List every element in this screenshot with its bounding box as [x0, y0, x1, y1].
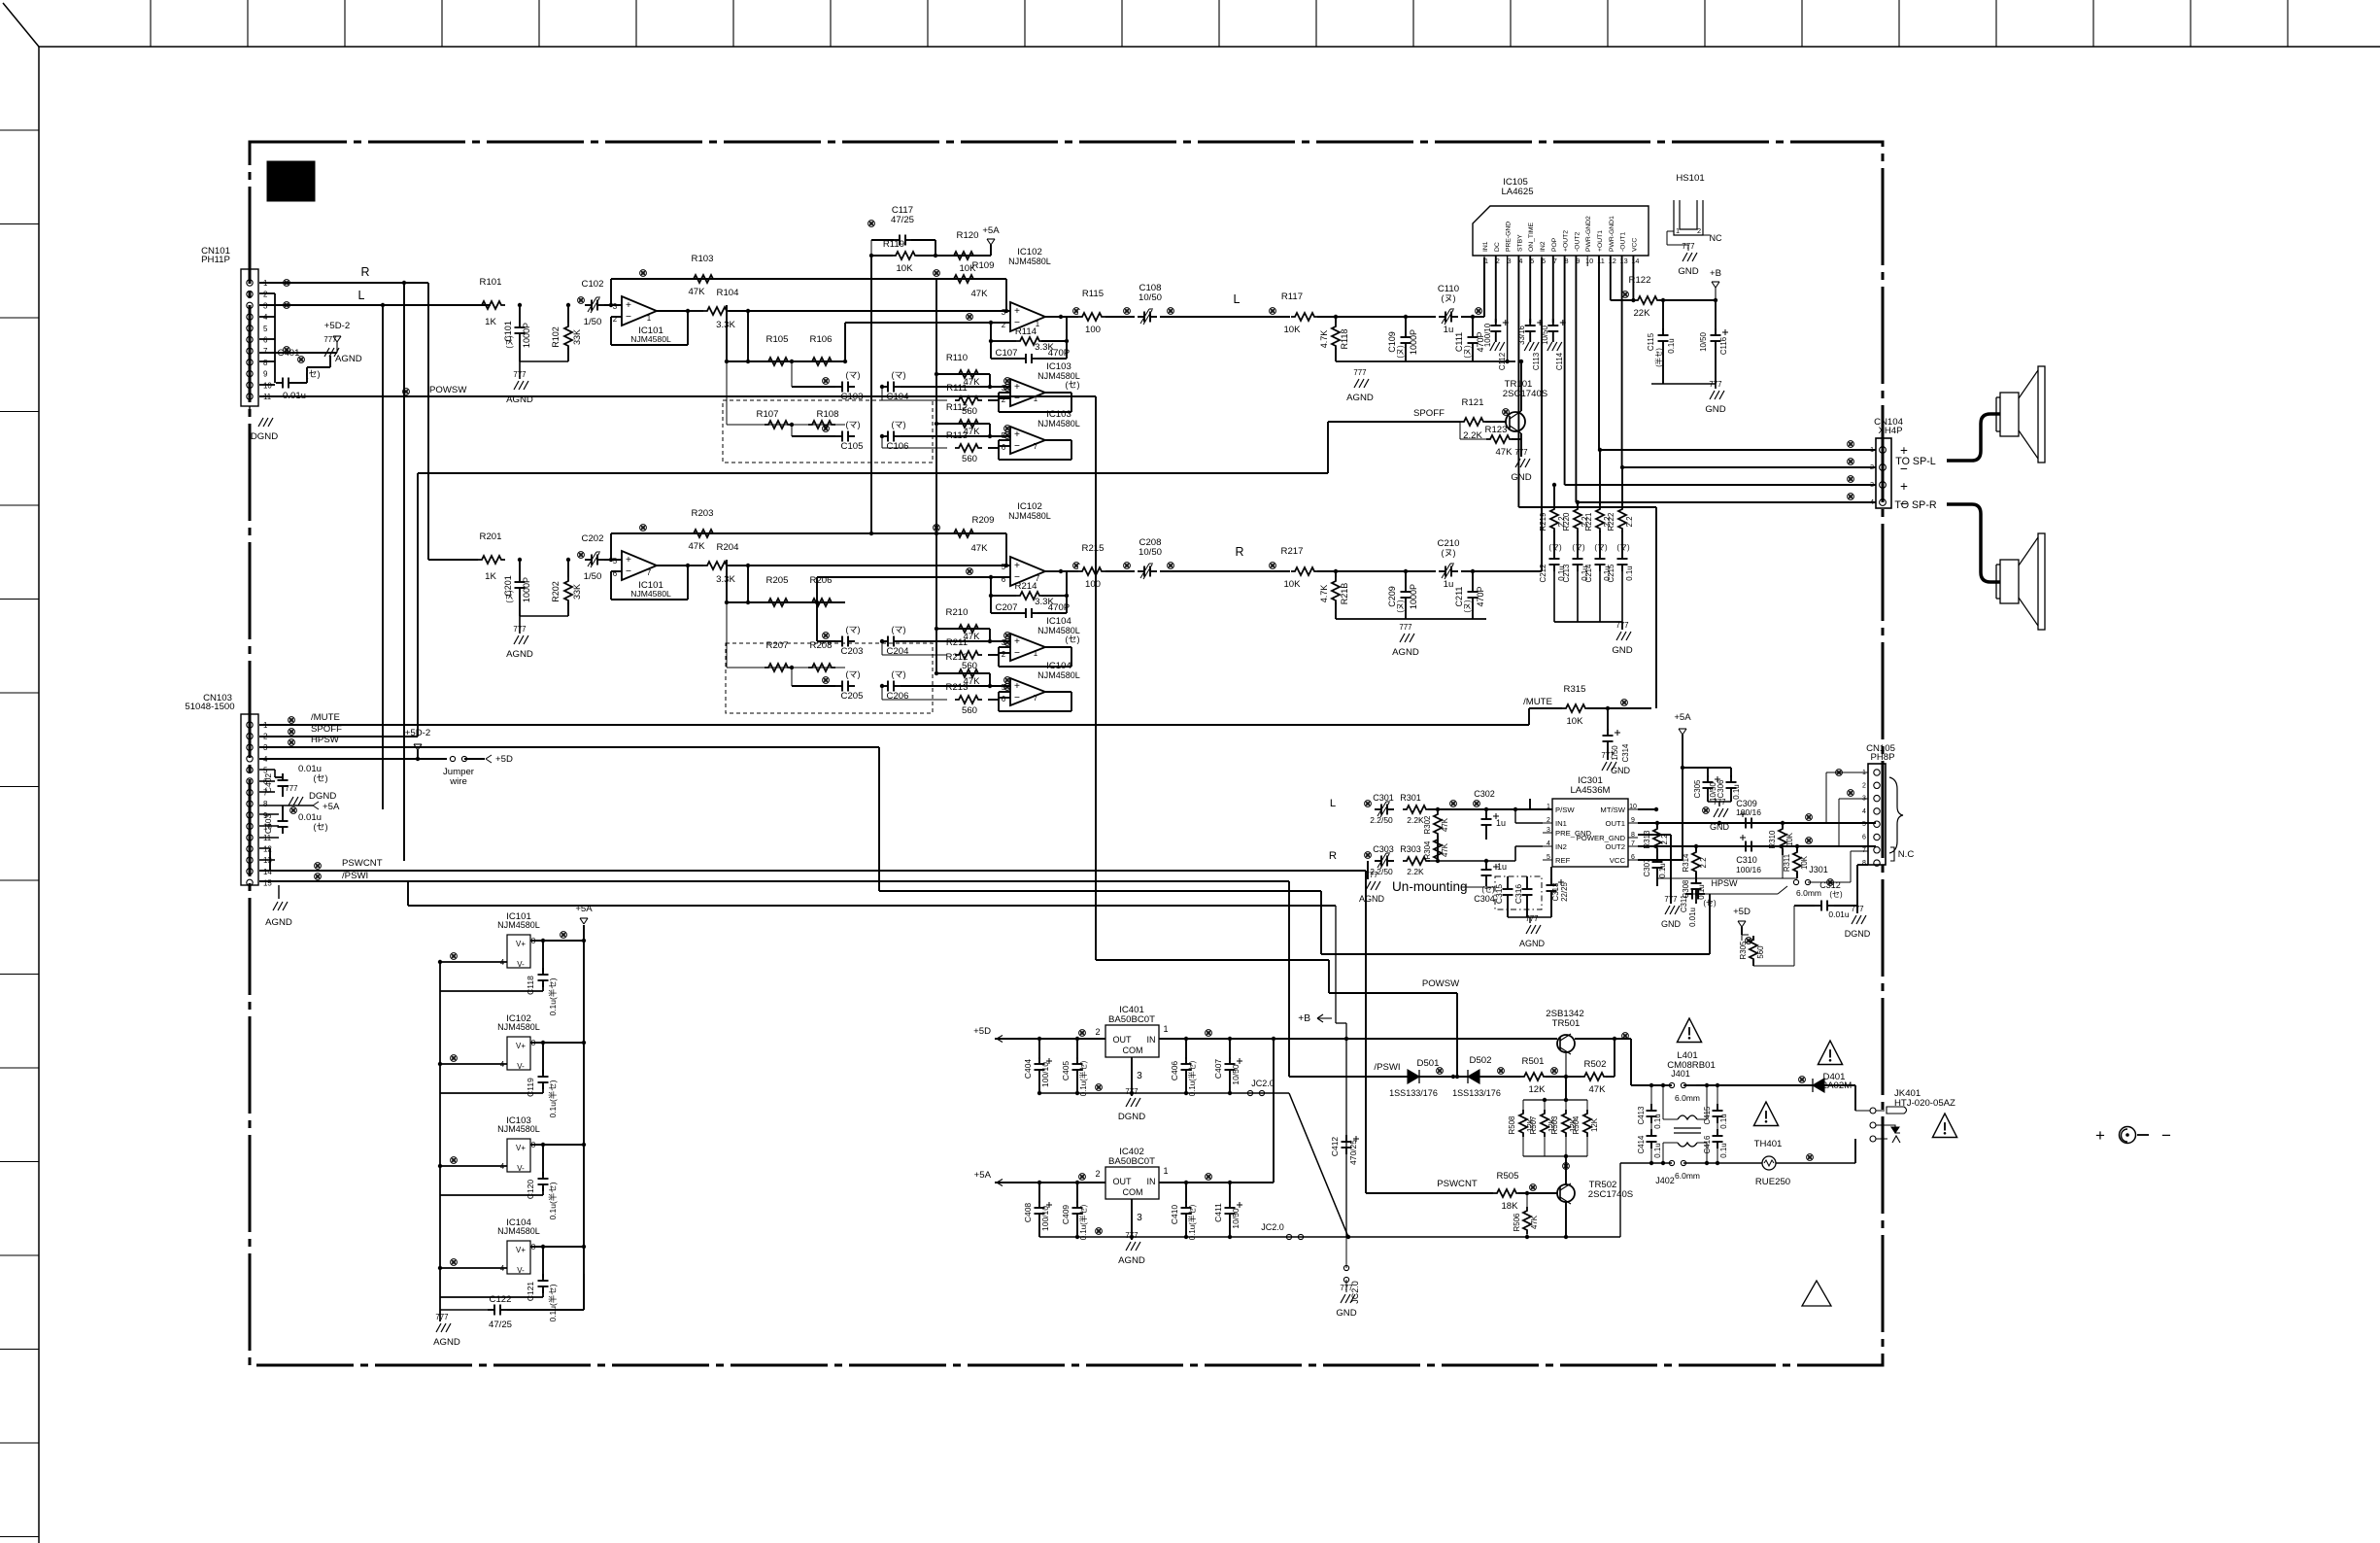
loop IC103a	[999, 393, 1071, 412]
svg-text:2: 2	[1870, 463, 1874, 471]
capacitor C210	[1436, 538, 1461, 590]
svg-text:AGND: AGND	[1118, 1255, 1145, 1266]
svg-text:GND: GND	[1705, 404, 1725, 415]
node L tap to IC301	[381, 303, 385, 809]
wire PSWCNT net	[259, 858, 1366, 1193]
wire HPSW net	[259, 735, 1710, 954]
svg-text:COM: COM	[1122, 1046, 1142, 1055]
svg-text:R305: R305	[1739, 941, 1748, 960]
ground TR101	[1511, 447, 1531, 483]
svg-text:/MUTE: /MUTE	[311, 712, 340, 723]
svg-text:XH4P: XH4P	[1878, 426, 1902, 436]
connector CN103	[185, 693, 258, 885]
svg-text:(ヌ): (ヌ)	[1396, 345, 1405, 359]
capacitor C302	[1474, 789, 1506, 840]
svg-text:D501: D501	[1417, 1058, 1440, 1069]
wire gnd rail	[520, 361, 568, 379]
svg-text:NJM4580L: NJM4580L	[497, 1124, 540, 1134]
via	[284, 347, 290, 354]
wire V- bus	[439, 962, 441, 1310]
svg-text:(マ): (マ)	[845, 420, 860, 429]
svg-text:C413: C413	[1637, 1106, 1646, 1125]
wire SPOFF	[1413, 408, 1460, 422]
svg-text:/PSWI: /PSWI	[1374, 1062, 1400, 1073]
capacitor C207	[991, 602, 1080, 644]
svg-text:R310: R310	[1768, 830, 1777, 849]
svg-text:+OUT2: +OUT2	[1563, 230, 1570, 252]
svg-text:C407: C407	[1213, 1059, 1223, 1080]
svg-text:ON_TIME: ON_TIME	[1528, 222, 1535, 252]
schematic dash-dot border	[250, 142, 1883, 1365]
ground AGND	[307, 335, 362, 383]
label R in	[1329, 850, 1337, 862]
wire to IC105 IN1	[1473, 257, 1484, 317]
wire IC402 com	[1118, 1199, 1145, 1266]
svg-text:6: 6	[1862, 835, 1866, 841]
svg-text:L: L	[358, 289, 365, 302]
svg-text:C406: C406	[1170, 1061, 1179, 1081]
resistor R208	[808, 640, 835, 671]
resistor R117	[1270, 291, 1318, 335]
svg-text:2: 2	[1095, 1027, 1100, 1037]
brace CN105	[1889, 777, 1903, 853]
svg-text:LA4625: LA4625	[1501, 187, 1533, 197]
svg-text:0.1u(半セ): 0.1u(半セ)	[1078, 1060, 1088, 1096]
svg-text:+5D: +5D	[973, 1026, 991, 1037]
svg-text:6: 6	[1002, 695, 1006, 703]
svg-text:(セ): (セ)	[313, 773, 327, 783]
capacitor C304	[1474, 861, 1507, 904]
svg-text:3: 3	[1870, 480, 1874, 489]
svg-text:V+: V+	[516, 1246, 526, 1254]
resistor R506	[1513, 1193, 1539, 1239]
resistor R502	[1566, 1039, 1615, 1095]
capacitor C405	[1061, 1037, 1088, 1096]
svg-text:2: 2	[263, 291, 267, 299]
label +B arrow	[1298, 1013, 1332, 1024]
svg-text:R215: R215	[1082, 543, 1105, 554]
svg-text:R214: R214	[1015, 581, 1038, 592]
capacitor C308	[1657, 876, 1706, 904]
via	[823, 677, 830, 684]
svg-text:7: 7	[1034, 694, 1037, 703]
svg-text:C214: C214	[1584, 564, 1593, 583]
svg-text:C114: C114	[1555, 352, 1564, 370]
wire L to IN1	[1513, 807, 1543, 823]
resistor R213	[882, 682, 1010, 716]
wire +5A rail	[561, 904, 594, 1310]
capacitor C408	[1023, 1181, 1052, 1237]
svg-text:AGND: AGND	[265, 917, 292, 928]
svg-text:R213: R213	[946, 682, 969, 693]
wire R down to R-channel row	[427, 283, 429, 560]
svg-text:+5A: +5A	[982, 225, 1000, 236]
svg-text:PSWCNT: PSWCNT	[342, 858, 383, 869]
svg-text:C405: C405	[1061, 1061, 1071, 1081]
wire TR501 emitter row	[1346, 1033, 1631, 1042]
svg-text:2.2K: 2.2K	[1407, 815, 1424, 825]
svg-text:14: 14	[263, 868, 272, 876]
svg-text:NJM4580L: NJM4580L	[497, 1226, 540, 1236]
resistor R503	[1550, 1100, 1578, 1156]
svg-text:POWSW: POWSW	[1422, 978, 1460, 989]
svg-text:(マ): (マ)	[891, 420, 905, 429]
wire into IC104b	[901, 685, 1010, 687]
svg-text:1/50: 1/50	[584, 571, 602, 582]
svg-text:C305: C305	[1693, 779, 1702, 799]
svg-text:470P: 470P	[1476, 586, 1485, 606]
svg-text:R102: R102	[551, 326, 561, 348]
jumper JC2.0 v	[1343, 1237, 1360, 1304]
resistor R211	[882, 637, 1010, 671]
svg-text:REF: REF	[1555, 856, 1571, 865]
svg-text:DGND: DGND	[251, 431, 278, 442]
svg-text:+: +	[1900, 479, 1908, 494]
svg-text:777: 777	[1514, 448, 1527, 457]
wire bank drops	[1554, 450, 1622, 505]
svg-text:10K: 10K	[896, 263, 913, 274]
svg-text:0.01u: 0.01u	[1688, 908, 1697, 927]
svg-text:777: 777	[1525, 914, 1538, 923]
capacitor C106	[880, 420, 909, 452]
svg-text:C416: C416	[1703, 1135, 1712, 1154]
svg-text:777: 777	[435, 1313, 448, 1321]
svg-text:C212: C212	[1539, 565, 1547, 583]
svg-text:10K: 10K	[1283, 325, 1301, 335]
svg-text:3: 3	[613, 302, 618, 311]
svg-text:C103: C103	[841, 392, 864, 402]
capacitor C202	[578, 533, 604, 582]
svg-text:777: 777	[1365, 871, 1377, 879]
svg-text:LA4536M: LA4536M	[1570, 785, 1610, 796]
svg-text:(セ): (セ)	[1703, 899, 1717, 908]
speaker L	[1996, 366, 2045, 463]
svg-text:1: 1	[1676, 226, 1680, 235]
svg-text:R204: R204	[717, 542, 740, 553]
resistor R217	[1270, 546, 1318, 590]
svg-text:100/16: 100/16	[1736, 807, 1761, 817]
svg-text:(マ): (マ)	[1594, 543, 1608, 552]
svg-text:1/50: 1/50	[584, 317, 602, 327]
loop IC104a	[999, 647, 1071, 667]
svg-text:R202: R202	[551, 581, 561, 602]
svg-text:R114: R114	[1015, 326, 1037, 337]
IC105 pin14 wire	[1611, 256, 1636, 302]
via	[284, 302, 290, 309]
resistor R220	[1562, 505, 1589, 552]
wire CN105 pin3	[1839, 790, 1868, 846]
svg-text:R315: R315	[1564, 684, 1586, 695]
capacitor C309	[1736, 799, 1761, 829]
resistor R304	[1423, 836, 1449, 863]
via	[284, 280, 290, 287]
resistor R218	[1319, 569, 1349, 619]
svg-text:TR501: TR501	[1552, 1018, 1581, 1029]
capacitor C314	[1603, 708, 1631, 762]
svg-text:GND: GND	[1611, 766, 1631, 775]
svg-text:R117: R117	[1281, 291, 1303, 302]
ground DGND 305	[1845, 905, 1871, 939]
svg-text:777: 777	[1713, 798, 1725, 806]
svg-text:R311: R311	[1783, 853, 1791, 872]
wire C103 row	[790, 360, 835, 387]
svg-text:R104: R104	[717, 288, 740, 298]
svg-text:C408: C408	[1023, 1203, 1033, 1223]
warning triangle TH401	[1753, 1102, 1782, 1149]
jumper JC2.0 a	[1247, 1079, 1274, 1096]
svg-text:10/50: 10/50	[1699, 332, 1708, 352]
resistor R121	[1460, 397, 1506, 441]
svg-text:C302: C302	[1474, 789, 1495, 799]
resistor R108	[808, 409, 838, 429]
capacitor C111	[1454, 315, 1485, 361]
svg-text:0.1u(半セ): 0.1u(半セ)	[548, 977, 558, 1015]
capacitor C109	[1387, 315, 1418, 361]
IC105 pin4 drop	[1518, 256, 1656, 708]
resistor R314	[1682, 846, 1708, 878]
svg-text:R205: R205	[766, 575, 789, 586]
svg-text:1: 1	[1034, 649, 1038, 658]
IC105 pin2 cap C112	[1483, 256, 1509, 370]
svg-text:−: −	[1014, 394, 1020, 404]
svg-text:AGND: AGND	[1346, 393, 1374, 403]
connector CN105	[1866, 743, 1895, 865]
capacitor C122	[440, 1274, 584, 1330]
svg-text:2: 2	[1095, 1169, 1100, 1179]
svg-text:NJM4580L: NJM4580L	[1037, 626, 1080, 635]
resistor R106	[808, 334, 835, 365]
ground DGND below CN101	[250, 406, 278, 442]
inductor L401	[1661, 1083, 1709, 1165]
wire +OUT1 to CN104-1	[1598, 256, 1876, 452]
label L in	[1330, 798, 1336, 809]
svg-text:NC: NC	[1709, 233, 1722, 243]
svg-text:R217: R217	[1281, 546, 1304, 557]
svg-text:C118: C118	[526, 976, 535, 995]
svg-text:TO SP-L: TO SP-L	[1895, 456, 1936, 467]
svg-text:47K: 47K	[970, 289, 988, 299]
svg-text:C202: C202	[582, 533, 604, 544]
svg-text:C203: C203	[841, 646, 864, 657]
svg-text:COM: COM	[1122, 1187, 1142, 1197]
power flag +B	[1710, 268, 1721, 300]
svg-text:+5A: +5A	[575, 904, 593, 914]
svg-text:J402: J402	[1655, 1176, 1675, 1185]
svg-text:C306: C306	[1717, 779, 1725, 799]
via	[1365, 801, 1372, 807]
resistor R219	[1539, 505, 1566, 552]
capacitor C118	[440, 939, 558, 1016]
diagonal wire	[1289, 1093, 1348, 1237]
svg-text:C403: C403	[263, 814, 273, 835]
svg-text:100/10: 100/10	[1040, 1062, 1050, 1087]
capacitor C402	[259, 764, 328, 797]
resistor R113	[882, 430, 1010, 464]
power flag +5D	[1733, 907, 1751, 935]
op-amp IC104b	[1002, 661, 1080, 705]
svg-text:AGND: AGND	[335, 354, 362, 364]
svg-text:0.01u: 0.01u	[1828, 909, 1849, 919]
svg-text:2.2/50: 2.2/50	[1370, 815, 1393, 825]
svg-text:AGND: AGND	[1392, 647, 1419, 658]
svg-text:1u: 1u	[1444, 325, 1454, 335]
svg-text:+: +	[1014, 561, 1020, 571]
svg-text:4.7K: 4.7K	[1319, 585, 1329, 603]
svg-text:C415: C415	[1703, 1106, 1712, 1125]
svg-text:HS101: HS101	[1676, 173, 1704, 184]
ground rail L mid	[1336, 361, 1515, 403]
svg-text:(マ): (マ)	[845, 669, 860, 679]
svg-text:(マ): (マ)	[1616, 543, 1630, 552]
capacitor C209	[1387, 569, 1418, 619]
polarity symbol	[2095, 1126, 2171, 1145]
ground AGND below CN103	[265, 885, 292, 928]
svg-text:R211: R211	[946, 637, 968, 648]
ground rail R mid	[1336, 619, 1486, 658]
svg-text:R113: R113	[946, 430, 968, 441]
svg-text:NJM4580L: NJM4580L	[1008, 511, 1051, 521]
svg-text:777: 777	[1353, 368, 1366, 377]
svg-text:+B: +B	[1710, 268, 1721, 279]
svg-text:0.1u(半セ): 0.1u(半セ)	[1187, 1204, 1197, 1240]
jack JK401	[1855, 1088, 1955, 1143]
svg-text:15: 15	[263, 878, 272, 887]
resistor R505	[1493, 1171, 1557, 1212]
svg-text:V-: V-	[517, 1266, 525, 1275]
heatsink HS101	[1667, 173, 1722, 251]
op-amp IC101a	[604, 296, 690, 345]
wire R105 R106 row	[725, 305, 845, 363]
wire POWSW bottom	[1096, 396, 1460, 1079]
svg-text:(マ): (マ)	[845, 370, 860, 380]
svg-text:3: 3	[1547, 827, 1550, 834]
svg-text:C314: C314	[1621, 743, 1630, 763]
op-amp power IC103	[438, 1115, 586, 1173]
resistor R105	[765, 334, 792, 365]
wire to L401	[1631, 1039, 1666, 1085]
svg-text:0.1u(半セ): 0.1u(半セ)	[548, 1080, 558, 1117]
svg-text:(マ): (マ)	[1572, 543, 1585, 552]
svg-text:4: 4	[1862, 808, 1866, 815]
svg-text:+: +	[1014, 429, 1020, 440]
svg-text:47K: 47K	[1441, 817, 1449, 832]
resistor R202	[551, 558, 582, 616]
svg-text:C121: C121	[526, 1282, 535, 1302]
svg-text:0.1u(半セ): 0.1u(半セ)	[548, 1284, 558, 1321]
svg-text:C310: C310	[1736, 855, 1757, 865]
capacitor C108	[1135, 283, 1162, 325]
IC105 pin12 wire	[1611, 256, 1620, 300]
svg-text:MT/SW: MT/SW	[1600, 806, 1625, 814]
diode D401	[1799, 1077, 1855, 1092]
svg-text:10K: 10K	[1800, 855, 1809, 870]
svg-text:C113: C113	[1532, 352, 1541, 370]
svg-text:100/10: 100/10	[1483, 323, 1492, 347]
svg-text:C409: C409	[1061, 1205, 1071, 1225]
svg-text:10: 10	[1629, 804, 1637, 810]
wire C105 row	[792, 425, 835, 436]
power flag +5A	[982, 225, 1000, 256]
svg-text:C205: C205	[841, 691, 864, 702]
svg-text:C120: C120	[526, 1180, 535, 1200]
svg-text:C116: C116	[1719, 336, 1728, 355]
IC301 LA4536M box	[1552, 775, 1628, 867]
svg-text:−: −	[1014, 648, 1020, 659]
svg-text:8: 8	[1862, 860, 1866, 867]
svg-text:OUT2: OUT2	[1606, 842, 1625, 851]
svg-text:GND: GND	[1612, 645, 1632, 656]
svg-text:NJM4580L: NJM4580L	[497, 920, 540, 930]
svg-text:33K: 33K	[572, 584, 582, 600]
svg-text:R505: R505	[1497, 1171, 1519, 1182]
resistor R111	[882, 383, 1010, 417]
capacitor C214	[1584, 543, 1612, 622]
svg-text:/MUTE: /MUTE	[1523, 697, 1552, 707]
capacitor C203	[835, 625, 863, 657]
svg-text:47K: 47K	[1588, 1084, 1606, 1095]
svg-text:BA50BC0T: BA50BC0T	[1108, 1156, 1155, 1167]
svg-text:C312: C312	[1819, 880, 1841, 890]
ground HS101	[1678, 242, 1698, 277]
svg-text:wire: wire	[449, 776, 467, 787]
svg-text:1000P: 1000P	[522, 323, 531, 348]
svg-text:+OUT1: +OUT1	[1597, 230, 1604, 252]
svg-text:+5D-2: +5D-2	[324, 321, 350, 331]
wire	[1428, 859, 1515, 863]
ground AGND2	[1508, 914, 1551, 948]
capacitor C204	[880, 625, 909, 657]
diode D502	[1419, 1055, 1504, 1098]
svg-text:6: 6	[1631, 854, 1635, 861]
svg-text:C311: C311	[1680, 894, 1688, 912]
wire mid vertical bus 964	[935, 279, 937, 533]
svg-text:6.0mm: 6.0mm	[1796, 888, 1821, 898]
capacitor C307	[1643, 855, 1667, 886]
via	[823, 378, 830, 385]
svg-text:HPSW: HPSW	[311, 735, 340, 745]
svg-text:C404: C404	[1023, 1059, 1033, 1080]
svg-text:R110: R110	[946, 353, 968, 363]
svg-text:IN1: IN1	[1555, 819, 1567, 828]
svg-text:R210: R210	[946, 607, 969, 618]
ground JC gnd	[1336, 1284, 1356, 1319]
svg-text:R121: R121	[1462, 397, 1484, 408]
svg-text:JC2.0: JC2.0	[1261, 1222, 1284, 1232]
svg-text:1K: 1K	[485, 571, 496, 582]
via	[1622, 291, 1629, 298]
ground GND	[1651, 380, 1726, 415]
svg-text:C401: C401	[278, 348, 300, 359]
svg-text:1: 1	[1163, 1024, 1168, 1034]
thermistor TH401	[1755, 1154, 1855, 1187]
svg-text:5: 5	[613, 557, 618, 566]
ground AGND	[506, 625, 533, 660]
svg-text:6.0mm: 6.0mm	[1675, 1171, 1700, 1181]
svg-text:(ヌ): (ヌ)	[1463, 600, 1472, 613]
resistor R118	[1319, 315, 1349, 361]
svg-text:GND: GND	[1336, 1308, 1356, 1319]
svg-text:(セ): (セ)	[313, 822, 327, 832]
svg-text:+: +	[626, 300, 631, 311]
svg-text:R118: R118	[1340, 329, 1349, 350]
svg-text:+5A: +5A	[1674, 712, 1691, 723]
svg-text:+B: +B	[1298, 1013, 1310, 1024]
svg-text:R507: R507	[1529, 1116, 1538, 1135]
resistor R315	[1562, 684, 1651, 727]
svg-text:/PSWI: /PSWI	[342, 871, 368, 881]
svg-text:2: 2	[1002, 395, 1005, 404]
wire aux net	[372, 894, 374, 896]
